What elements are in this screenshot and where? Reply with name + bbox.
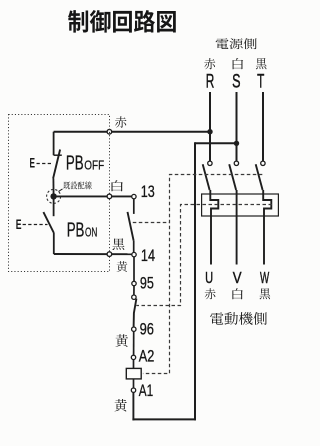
- wire label 黄 (yellow) between 96 and A2: [115, 334, 127, 347]
- thermal relay THR trip contact lever 95-96: [134, 299, 137, 327]
- pushbutton PB-OFF lever: [53, 150, 60, 179]
- label 赤 (red) phase R: [204, 58, 215, 69]
- actuator dashed link E to PB-OFF: [37, 163, 52, 165]
- wire 13 to MC aux contact: [133, 199, 135, 214]
- linkage dashed MC main contacts to coil: [143, 175, 262, 374]
- wire label 赤 (red): [115, 116, 127, 127]
- linkage dashed THR heaters to trip contact: [136, 205, 272, 306]
- wire black from PB-ON to terminal 14: [54, 253, 132, 255]
- terminal circle 95: [132, 281, 136, 285]
- terminal circle white wire at box boundary: [107, 194, 112, 199]
- svg-text:14: 14: [141, 246, 155, 265]
- wire label 黒 (black): [112, 238, 124, 250]
- contactor MC main contact fixed circle phase S: [234, 161, 238, 165]
- svg-text:E: E: [30, 154, 36, 170]
- pushbutton PB-ON upper wire: [53, 196, 55, 216]
- existing wiring dotted enclosure box: [9, 115, 110, 272]
- wire white from splice to terminal 13: [54, 195, 132, 197]
- wire phase S through thermal box: [236, 190, 238, 265]
- svg-text:A1: A1: [139, 381, 153, 400]
- label 白 (white) phase V: [232, 288, 242, 299]
- wire phase S vertical: [236, 92, 238, 161]
- dashed highlight circle around splice: [47, 189, 61, 203]
- wire aux contact to terminal 14: [133, 241, 135, 253]
- terminal circle A1: [131, 388, 135, 392]
- svg-text:ON: ON: [85, 225, 97, 239]
- contactor MC main contact lever phase S: [229, 164, 236, 190]
- svg-text:R: R: [206, 71, 215, 92]
- thermal overload relay THR box: [202, 194, 279, 216]
- wire red control tap from R: [54, 131, 210, 133]
- terminal circle 14: [132, 252, 136, 256]
- label 既設配線 (existing wiring): [63, 181, 91, 189]
- terminal circle black wire at box boundary: [107, 252, 112, 257]
- wire control return vertical: [194, 142, 196, 420]
- contactor MC operating coil: [126, 368, 141, 379]
- wire white control tap from S horizontal: [195, 142, 237, 144]
- svg-text:U: U: [205, 270, 213, 287]
- wire coil to terminal A1: [133, 379, 135, 388]
- svg-text:S: S: [232, 71, 240, 92]
- svg-text:V: V: [233, 270, 242, 287]
- wire 14 to terminal 95: [133, 257, 135, 282]
- actuator dashed link E to PB-ON: [23, 224, 48, 226]
- svg-text:96: 96: [140, 320, 154, 339]
- contactor MC main contact lever phase R: [203, 164, 210, 190]
- label 黒 (black) phase W: [260, 288, 271, 299]
- label 電動機側 (motor side): [210, 312, 267, 325]
- thermal relay THR trip contact fixed circle: [132, 295, 136, 299]
- linkage dashed MC aux contact: [133, 222, 170, 224]
- junction node on phase R: [207, 129, 212, 134]
- svg-text:PB: PB: [67, 218, 85, 241]
- terminal circle 96: [132, 327, 136, 331]
- pushbutton PB-OFF lower wire: [52, 179, 54, 198]
- pushbutton PB-OFF fixed contact bar: [54, 154, 62, 156]
- wire A2 to coil: [133, 360, 135, 369]
- contactor MC main contact lever phase T: [256, 164, 263, 190]
- terminal circle 13: [132, 194, 136, 198]
- contactor MC auxiliary self-holding contact lever 13-14: [128, 212, 134, 241]
- contactor MC main contact fixed circle phase R: [208, 161, 212, 165]
- wire label 黄 (yellow) between 14 and 95: [117, 261, 128, 272]
- svg-text:T: T: [257, 71, 264, 92]
- label 白 (white) phase S: [233, 58, 244, 69]
- terminal circle A2: [131, 355, 135, 359]
- svg-text:PB: PB: [66, 152, 84, 175]
- wire phase T through thermal heater (with heater jog): [263, 190, 271, 265]
- svg-text:OFF: OFF: [84, 159, 104, 173]
- pointer line from 既設配線 label to splice: [58, 189, 62, 192]
- pushbutton PB-ON lower wire: [53, 233, 55, 254]
- terminal circle red wire at box boundary: [107, 129, 112, 134]
- junction node on phase S: [234, 141, 239, 146]
- svg-text:W: W: [260, 270, 270, 287]
- contactor MC main contact fixed circle phase T: [261, 161, 265, 165]
- svg-text:95: 95: [140, 273, 154, 292]
- label 黒 (black) phase T: [256, 58, 267, 69]
- label 赤 (red) phase U: [205, 288, 216, 299]
- wire control return bottom horizontal: [132, 418, 196, 420]
- wire label 白 (white): [112, 180, 124, 191]
- junction node splice on white wire: [50, 193, 56, 199]
- pushbutton PB-ON lever: [43, 212, 54, 233]
- wire phase T vertical: [262, 92, 264, 161]
- title 制御回路図 (control circuit diagram): [68, 10, 176, 33]
- svg-text:A2: A2: [139, 346, 155, 365]
- wire 96 to terminal A2: [133, 331, 135, 355]
- wire phase R vertical: [209, 92, 211, 161]
- wire A1 down to bottom return: [132, 392, 134, 420]
- wire phase R through thermal heater (with heater jog): [210, 190, 218, 265]
- wire label 黄 (yellow) below A1: [114, 399, 126, 412]
- svg-text:E: E: [16, 216, 22, 232]
- wire 95 to THR contact: [133, 286, 135, 295]
- pushbutton PB-OFF upper wire: [53, 132, 55, 156]
- label 電源側 (power-supply side): [216, 38, 257, 49]
- svg-text:13: 13: [141, 182, 155, 201]
